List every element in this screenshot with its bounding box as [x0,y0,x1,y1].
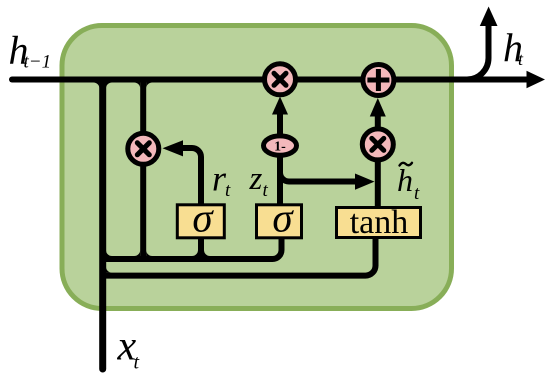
arrowhead into plus circle [370,98,386,117]
svg-text:tanh: tanh [350,204,409,241]
wire: tanh top to z x-circle [375,162,381,207]
fillet upper-bus left start [106,250,112,256]
wire: sigma-z up through 1- to main x-circle [277,114,283,204]
node: 1- ellipse [264,136,297,155]
fillet left of reset drop at main line [134,83,140,89]
GRU cell body (green rounded box) [62,26,452,309]
box: tanh [337,208,421,238]
node: reset multiply circle [128,133,159,164]
wire: sigma-r bottom stub [198,236,204,259]
svg-text:σ: σ [192,195,214,241]
fillet right of x_t drop at main line [106,83,112,89]
glyph x in z circle [372,138,384,150]
arrowhead into update vertical [355,174,375,190]
fillet right of reset drop at main line [146,83,152,89]
node: plus circle [363,65,394,96]
node: z multiply circle [362,129,393,160]
glyph x in main circle [274,73,286,85]
wire: sigma-r output elbow to reset x-circle [183,148,201,204]
wire: h_t up branch [458,25,489,80]
arrowhead into main x-circle [272,97,288,115]
wire: z x-circle up to plus circle [375,116,381,127]
wire: lower bus to tanh bottom [103,236,376,276]
wire: upper bus to sigma-z bottom [103,236,282,259]
glyph x in reset circle [137,143,149,155]
fillet right of sigma-r stub at upper bus [204,250,210,256]
fillet left of sigma-r stub at upper bus [192,250,198,256]
arrowhead up h_t [480,7,498,27]
svg-text:1-: 1- [274,140,286,155]
box: sigma-r [177,205,224,238]
svg-text:t: t [414,183,420,204]
svg-text:t: t [225,180,231,201]
fillet left of reset vertical at upper bus [134,250,140,256]
box: sigma-z [257,205,302,238]
wire: x_t vertical [99,82,106,369]
node: main multiply circle [265,64,296,95]
fillet left of x_t drop at main line [93,83,99,89]
svg-text:t: t [263,180,269,201]
svg-text:t: t [134,352,140,374]
arrowhead right h_t out [527,71,546,88]
svg-text:h: h [397,162,413,198]
wire: reset vertical (main line through x-circle to upper bus) [140,80,146,260]
wire: main h line [12,77,527,83]
wire: z branch to update path [280,173,356,182]
fillet lower-bus left start [106,267,112,273]
svg-text:σ: σ [272,195,294,241]
fillet right of reset vertical at upper bus [146,250,152,256]
arrowhead into reset x-circle [163,140,184,156]
glyph plus [367,69,389,91]
svg-text:t−1: t−1 [24,52,52,73]
svg-text:z: z [249,161,263,197]
